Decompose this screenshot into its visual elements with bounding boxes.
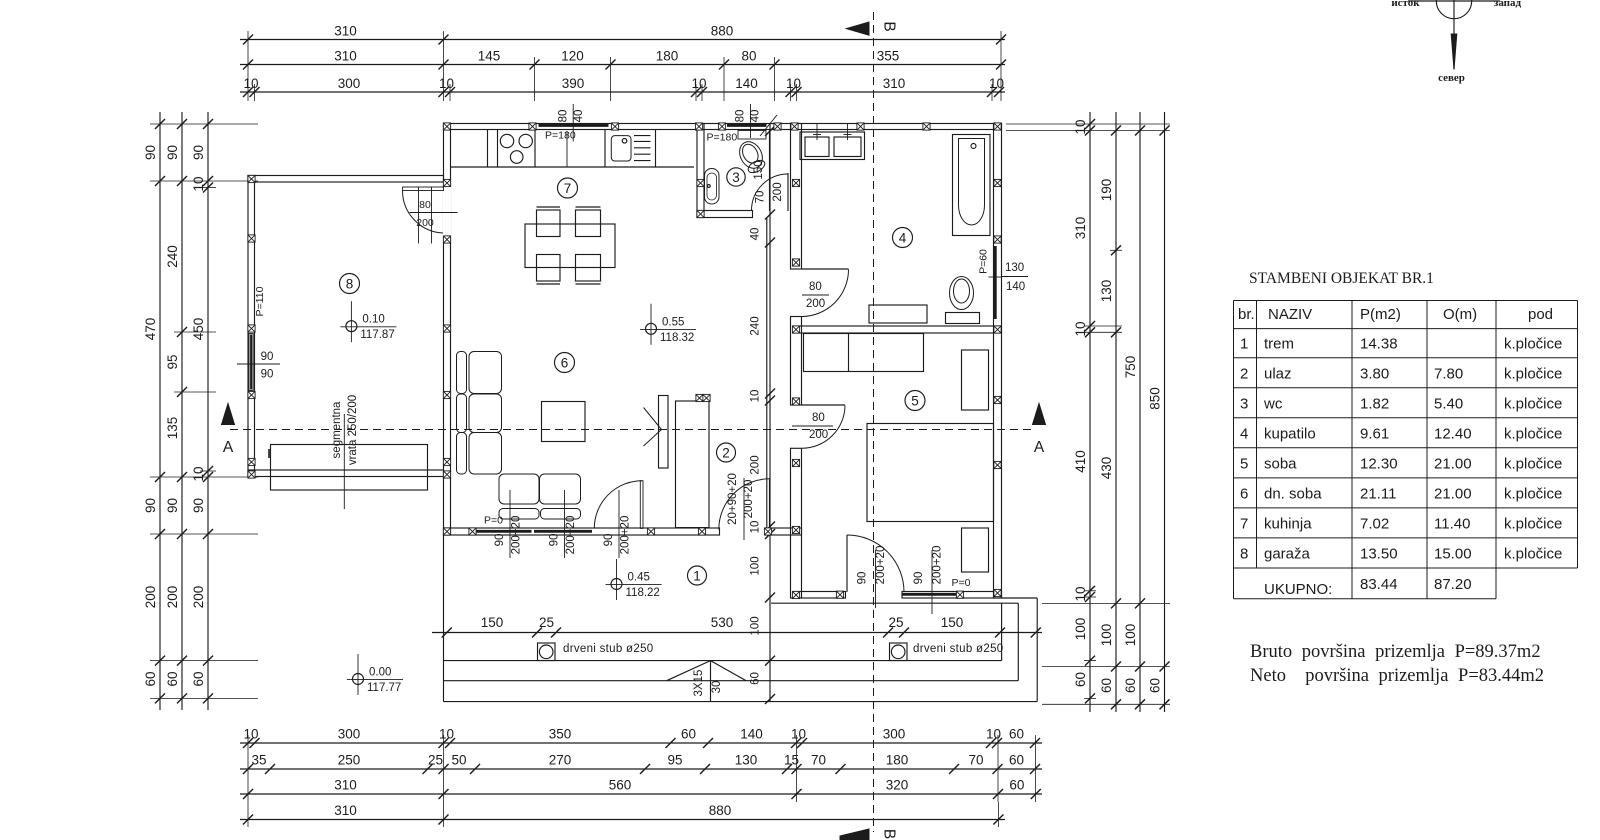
svg-text:200+20: 200+20 — [565, 516, 577, 555]
kitchen window dim 80/40 — [572, 104, 574, 142]
svg-text:200+20: 200+20 — [932, 546, 944, 585]
south door of room2 — [769, 479, 771, 530]
svg-text:10: 10 — [439, 727, 454, 742]
svg-text:150: 150 — [753, 160, 765, 179]
svg-text:pod: pod — [1528, 306, 1553, 323]
svg-text:70: 70 — [755, 191, 767, 204]
north compass — [1436, 0, 1471, 19]
svg-text:10: 10 — [986, 727, 1001, 742]
svg-text:O(m): O(m) — [1443, 306, 1477, 323]
section marker B top — [846, 22, 869, 35]
dining table — [525, 224, 615, 268]
svg-text:50: 50 — [451, 753, 466, 768]
svg-text:kuhinja: kuhinja — [1264, 515, 1312, 532]
wire south wall east part — [771, 528, 802, 535]
sofa — [457, 352, 467, 394]
svg-text:7: 7 — [1240, 515, 1248, 532]
svg-text:100: 100 — [750, 556, 762, 575]
svg-text:60: 60 — [1148, 678, 1163, 693]
svg-text:A: A — [1034, 439, 1045, 456]
svg-text:40: 40 — [573, 110, 585, 123]
svg-text:A: A — [223, 439, 234, 456]
wire mid wall middle — [791, 317, 802, 406]
svg-text:200: 200 — [143, 586, 158, 609]
svg-text:0.55: 0.55 — [662, 316, 684, 328]
svg-text:vrata 250/200: vrata 250/200 — [347, 395, 359, 465]
svg-text:100: 100 — [1099, 624, 1114, 647]
svg-text:200: 200 — [806, 298, 825, 310]
svg-text:5: 5 — [1240, 455, 1248, 472]
wardrobe room5 — [804, 334, 924, 372]
svg-text:60: 60 — [1009, 753, 1024, 768]
svg-text:P=180: P=180 — [545, 130, 576, 142]
svg-text:310: 310 — [334, 24, 357, 39]
svg-text:10: 10 — [191, 176, 206, 191]
svg-text:130: 130 — [1099, 280, 1114, 303]
svg-text:drveni stub ø250: drveni stub ø250 — [563, 643, 653, 655]
room circle 8 — [340, 274, 360, 294]
svg-text:130: 130 — [1005, 262, 1024, 274]
door mid wall to room5 80/200 — [802, 404, 846, 406]
twin sinks — [800, 132, 865, 160]
svg-text:soba: soba — [1264, 455, 1297, 472]
svg-text:60: 60 — [1099, 678, 1114, 693]
cooktop — [500, 134, 513, 147]
svg-text:410: 410 — [1073, 450, 1088, 473]
svg-text:запад: запад — [1494, 0, 1522, 9]
svg-text:10: 10 — [691, 76, 706, 91]
svg-text:P=60: P=60 — [978, 249, 990, 274]
svg-text:60: 60 — [1073, 672, 1088, 687]
svg-text:430: 430 — [1099, 457, 1114, 480]
svg-text:200: 200 — [809, 429, 828, 441]
svg-text:10: 10 — [1073, 119, 1088, 134]
svg-text:180: 180 — [656, 49, 679, 64]
window P=60 east wall — [994, 246, 997, 319]
svg-text:10: 10 — [1073, 586, 1088, 601]
wire mid wall lower — [791, 448, 802, 598]
section line A-A — [230, 429, 1035, 431]
door mid wall to room4 80/200 — [802, 268, 849, 270]
svg-text:880: 880 — [711, 24, 734, 39]
coffee table — [542, 402, 586, 442]
svg-text:90: 90 — [191, 145, 206, 160]
room circle 7 — [558, 178, 578, 198]
south glass door of room6 — [640, 481, 643, 529]
svg-text:390: 390 — [562, 76, 585, 91]
svg-text:10: 10 — [786, 76, 801, 91]
svg-text:3.80: 3.80 — [1360, 365, 1389, 382]
svg-text:60: 60 — [1009, 778, 1024, 793]
svg-text:200: 200 — [191, 586, 206, 609]
wire room5 south wall east — [902, 592, 1002, 599]
svg-text:21.11: 21.11 — [1360, 485, 1396, 502]
svg-text:70: 70 — [811, 753, 826, 768]
porch trem outline — [443, 535, 445, 702]
wire hall partition — [769, 130, 771, 212]
svg-text:40: 40 — [750, 110, 762, 123]
svg-text:2: 2 — [722, 446, 730, 461]
svg-text:90: 90 — [261, 351, 274, 363]
svg-text:320: 320 — [886, 778, 909, 793]
svg-text:6: 6 — [561, 356, 569, 371]
svg-text:850: 850 — [1148, 387, 1163, 410]
svg-text:40: 40 — [750, 228, 762, 241]
svg-text:1.82: 1.82 — [1360, 395, 1389, 412]
wire wc west wall — [697, 124, 704, 218]
garage door segmentna vrata — [271, 445, 428, 491]
svg-text:10: 10 — [243, 76, 258, 91]
svg-text:11.40: 11.40 — [1434, 515, 1470, 532]
svg-text:P=110: P=110 — [254, 286, 266, 316]
svg-text:10: 10 — [191, 466, 206, 481]
svg-text:117.87: 117.87 — [360, 329, 394, 341]
svg-text:300: 300 — [883, 727, 906, 742]
svg-text:80: 80 — [419, 199, 431, 211]
svg-text:200: 200 — [772, 182, 784, 201]
room circle 6 — [555, 353, 575, 373]
svg-text:P=0: P=0 — [952, 577, 971, 589]
toilet room4 — [950, 277, 974, 310]
wire garage west wall — [248, 176, 255, 477]
entry partition — [659, 396, 669, 469]
wooden post drveni stub right — [890, 643, 908, 661]
svg-text:8: 8 — [1240, 545, 1248, 562]
wire west wall — [444, 124, 451, 536]
svg-text:90: 90 — [494, 534, 506, 547]
svg-text:300: 300 — [338, 76, 361, 91]
svg-text:300: 300 — [338, 727, 361, 742]
svg-text:60: 60 — [1009, 727, 1024, 742]
chairs — [537, 210, 561, 237]
svg-text:60: 60 — [191, 671, 206, 686]
svg-text:Neto površina prizemlja P=83.: Neto površina prizemlja P=83.44m2 — [1250, 666, 1544, 686]
wire garage south wall — [248, 470, 444, 477]
svg-text:trem: trem — [1264, 336, 1294, 353]
svg-text:25: 25 — [428, 753, 443, 768]
svg-text:270: 270 — [549, 753, 572, 768]
svg-text:90: 90 — [857, 572, 869, 585]
kitchen counter — [451, 166, 695, 168]
garage window west — [249, 334, 253, 391]
svg-text:6: 6 — [1240, 485, 1248, 502]
svg-text:90: 90 — [165, 498, 180, 513]
svg-text:7.02: 7.02 — [1360, 515, 1389, 532]
section marker B bottom — [840, 829, 869, 840]
svg-text:140: 140 — [1006, 281, 1025, 293]
svg-text:60: 60 — [681, 727, 696, 742]
svg-text:90: 90 — [165, 145, 180, 160]
svg-text:150: 150 — [481, 615, 504, 630]
svg-text:15.00: 15.00 — [1434, 545, 1472, 562]
svg-text:250: 250 — [338, 753, 361, 768]
svg-text:80: 80 — [809, 281, 822, 293]
svg-text:10: 10 — [791, 727, 806, 742]
svg-text:30: 30 — [711, 681, 723, 694]
svg-text:310: 310 — [334, 803, 357, 818]
nightstand top — [962, 350, 989, 410]
svg-text:190: 190 — [1099, 179, 1114, 202]
svg-text:310: 310 — [334, 49, 357, 64]
svg-text:80: 80 — [741, 49, 756, 64]
bathtub — [953, 135, 991, 236]
svg-text:150: 150 — [941, 615, 964, 630]
svg-text:12.40: 12.40 — [1434, 425, 1472, 442]
svg-text:NAZIV: NAZIV — [1268, 306, 1312, 323]
svg-text:100: 100 — [1073, 618, 1088, 641]
wall posts — [443, 123, 450, 130]
svg-text:STAMBENI OBJEKAT BR.1: STAMBENI OBJEKAT BR.1 — [1249, 270, 1434, 287]
svg-text:180: 180 — [886, 753, 909, 768]
shelf room4 — [869, 305, 927, 323]
room circle 2 — [717, 443, 736, 462]
elevation marker trem 0.45 — [611, 579, 622, 590]
svg-text:200: 200 — [750, 455, 762, 474]
svg-text:5.40: 5.40 — [1434, 395, 1463, 412]
svg-text:560: 560 — [609, 778, 632, 793]
wire wc south wall — [697, 211, 753, 218]
room circle 4 — [893, 228, 913, 248]
washbasin wc — [705, 169, 720, 205]
right dimension chains — [1089, 112, 1091, 712]
svg-text:3X15: 3X15 — [693, 670, 705, 697]
svg-text:k.pločice: k.pločice — [1504, 365, 1562, 382]
svg-text:200+20: 200+20 — [743, 480, 755, 519]
door room5 south — [846, 535, 848, 592]
wire east wall — [994, 124, 1002, 599]
svg-text:10: 10 — [989, 76, 1004, 91]
wire room5 south wall west — [794, 592, 846, 599]
svg-text:0.00: 0.00 — [369, 667, 391, 679]
wooden post drveni stub left — [538, 643, 556, 661]
svg-text:117.77: 117.77 — [367, 682, 401, 694]
svg-text:470: 470 — [143, 318, 158, 341]
svg-text:100: 100 — [1123, 624, 1138, 647]
svg-text:240: 240 — [750, 316, 762, 335]
svg-text:118.22: 118.22 — [626, 587, 660, 599]
wc door — [787, 173, 789, 211]
svg-text:B: B — [881, 829, 898, 839]
svg-text:dn. soba: dn. soba — [1264, 485, 1322, 502]
room5 south dims — [875, 550, 877, 608]
svg-text:3: 3 — [732, 170, 740, 185]
section marker A left — [222, 404, 235, 425]
svg-text:90: 90 — [143, 145, 158, 160]
elevation marker garage 0.10 — [346, 321, 357, 332]
svg-text:север: север — [1438, 72, 1465, 84]
svg-text:10: 10 — [439, 76, 454, 91]
room circle 3 — [727, 168, 745, 186]
svg-text:10: 10 — [1073, 321, 1088, 336]
svg-text:90: 90 — [549, 534, 561, 547]
svg-text:7.80: 7.80 — [1434, 365, 1463, 382]
svg-text:145: 145 — [478, 49, 501, 64]
svg-text:90: 90 — [261, 369, 274, 381]
svg-text:25: 25 — [888, 615, 903, 630]
svg-text:90: 90 — [913, 572, 925, 585]
svg-text:B: B — [881, 21, 898, 31]
svg-text:14.38: 14.38 — [1360, 336, 1398, 353]
wire garage north wall — [248, 176, 444, 183]
svg-text:90: 90 — [603, 534, 615, 547]
svg-text:95: 95 — [165, 354, 180, 369]
svg-text:60: 60 — [143, 671, 158, 686]
door garage-kitchen 80/200 — [403, 187, 444, 191]
svg-text:13.50: 13.50 — [1360, 545, 1398, 562]
svg-text:0.10: 0.10 — [362, 314, 384, 326]
svg-text:20+90+20: 20+90+20 — [727, 473, 739, 525]
svg-text:60: 60 — [165, 671, 180, 686]
kitchen window — [539, 124, 609, 127]
svg-text:70: 70 — [968, 753, 983, 768]
svg-text:drveni stub ø250: drveni stub ø250 — [913, 643, 1003, 655]
svg-text:90: 90 — [191, 498, 206, 513]
entry arrow — [644, 408, 662, 447]
svg-text:310: 310 — [1073, 217, 1088, 240]
left dimension chains — [159, 112, 161, 710]
slope mark 3X15/30 — [667, 661, 711, 681]
porch dimension line — [432, 632, 1042, 634]
room circle 5 — [905, 391, 925, 411]
room circle 1 — [688, 566, 707, 585]
svg-text:80: 80 — [558, 110, 570, 123]
wire hall west line — [766, 218, 768, 529]
svg-text:7: 7 — [564, 181, 572, 196]
svg-text:140: 140 — [735, 76, 758, 91]
svg-text:8: 8 — [346, 277, 354, 292]
svg-text:P(m2): P(m2) — [1360, 306, 1401, 323]
svg-text:12.30: 12.30 — [1360, 455, 1398, 472]
south wall windows — [477, 530, 532, 533]
svg-text:k.pločice: k.pločice — [1504, 545, 1562, 562]
svg-text:4: 4 — [1240, 425, 1248, 442]
svg-text:k.pločice: k.pločice — [1504, 485, 1562, 502]
svg-text:200: 200 — [416, 217, 434, 229]
svg-text:ulaz: ulaz — [1264, 365, 1292, 382]
svg-text:87.20: 87.20 — [1434, 576, 1472, 593]
svg-text:35: 35 — [251, 753, 266, 768]
svg-text:60: 60 — [1123, 678, 1138, 693]
svg-text:355: 355 — [877, 49, 900, 64]
svg-text:310: 310 — [883, 76, 906, 91]
inner porch dim line x770 — [769, 124, 771, 701]
svg-text:segmentna: segmentna — [331, 401, 343, 459]
svg-text:UKUPNO:: UKUPNO: — [1264, 581, 1332, 598]
nightstand bottom — [962, 528, 989, 572]
svg-text:10: 10 — [243, 727, 258, 742]
svg-text:Bruto površina prizemlja P=89.: Bruto površina prizemlja P=89.37m2 — [1250, 642, 1541, 662]
svg-text:k.pločice: k.pločice — [1504, 515, 1562, 532]
svg-text:10: 10 — [750, 390, 762, 403]
bed — [867, 424, 994, 522]
south windows dims — [509, 490, 511, 558]
svg-text:1: 1 — [693, 569, 701, 584]
wc window — [727, 124, 767, 127]
svg-text:2: 2 — [1240, 365, 1248, 382]
svg-text:15: 15 — [784, 753, 799, 768]
svg-text:135: 135 — [165, 417, 180, 440]
svg-text:120: 120 — [561, 49, 584, 64]
svg-text:60: 60 — [750, 672, 762, 685]
svg-text:118.32: 118.32 — [660, 332, 694, 344]
svg-text:10: 10 — [750, 521, 762, 534]
svg-text:200+20: 200+20 — [875, 546, 887, 585]
svg-text:100: 100 — [750, 616, 762, 635]
svg-text:21.00: 21.00 — [1434, 485, 1472, 502]
svg-text:200+20: 200+20 — [511, 516, 523, 555]
svg-text:4: 4 — [899, 231, 907, 246]
wire mid wall upper — [791, 124, 802, 270]
svg-text:200: 200 — [165, 586, 180, 609]
svg-text:25: 25 — [539, 615, 554, 630]
svg-text:83.44: 83.44 — [1360, 576, 1398, 593]
svg-text:P=180: P=180 — [707, 132, 738, 144]
svg-text:0.45: 0.45 — [628, 572, 650, 584]
svg-text:wc: wc — [1263, 395, 1283, 412]
svg-text:530: 530 — [711, 615, 734, 630]
svg-text:k.pločice: k.pločice — [1504, 455, 1562, 472]
svg-text:140: 140 — [740, 727, 763, 742]
svg-text:P=0: P=0 — [484, 515, 503, 527]
svg-text:5: 5 — [911, 394, 919, 409]
svg-text:1: 1 — [1240, 336, 1248, 353]
toilet wc — [735, 138, 767, 173]
room5 south window — [902, 593, 959, 596]
svg-text:9.61: 9.61 — [1360, 425, 1389, 442]
svg-text:750: 750 — [1123, 356, 1138, 379]
svg-text:k.pločice: k.pločice — [1504, 395, 1562, 412]
svg-text:130: 130 — [735, 753, 758, 768]
svg-text:исток: исток — [1391, 0, 1420, 9]
wc window dim 80/40 — [750, 104, 752, 138]
svg-text:k.pločice: k.pločice — [1504, 336, 1562, 353]
svg-text:450: 450 — [191, 318, 206, 341]
wire south wall west part — [444, 528, 720, 535]
svg-text:80: 80 — [735, 110, 747, 123]
section line B-B — [873, 12, 875, 832]
wire north wall — [444, 124, 1002, 130]
svg-text:200+20: 200+20 — [620, 516, 632, 555]
room table — [1234, 301, 1578, 599]
elevation marker room6 0.55 — [646, 323, 657, 334]
svg-text:kupatilo: kupatilo — [1264, 425, 1316, 442]
svg-text:880: 880 — [709, 803, 732, 818]
wire wall between rooms 4 and 5 — [794, 326, 1002, 333]
bottom dimension chains — [240, 742, 1042, 744]
svg-text:21.00: 21.00 — [1434, 455, 1472, 472]
svg-text:80: 80 — [812, 412, 825, 424]
elevation marker outside 0.00 — [353, 674, 364, 685]
svg-text:95: 95 — [667, 753, 682, 768]
svg-text:3: 3 — [1240, 395, 1248, 412]
section marker A right — [1033, 404, 1046, 425]
svg-text:garaža: garaža — [1264, 545, 1311, 562]
kitchen sink — [611, 136, 631, 161]
svg-text:k.pločice: k.pločice — [1504, 425, 1562, 442]
svg-text:240: 240 — [165, 245, 180, 268]
top dimension chains — [240, 39, 1005, 41]
svg-text:350: 350 — [549, 727, 572, 742]
svg-text:90: 90 — [143, 498, 158, 513]
svg-text:310: 310 — [334, 778, 357, 793]
svg-text:br.: br. — [1238, 306, 1255, 323]
